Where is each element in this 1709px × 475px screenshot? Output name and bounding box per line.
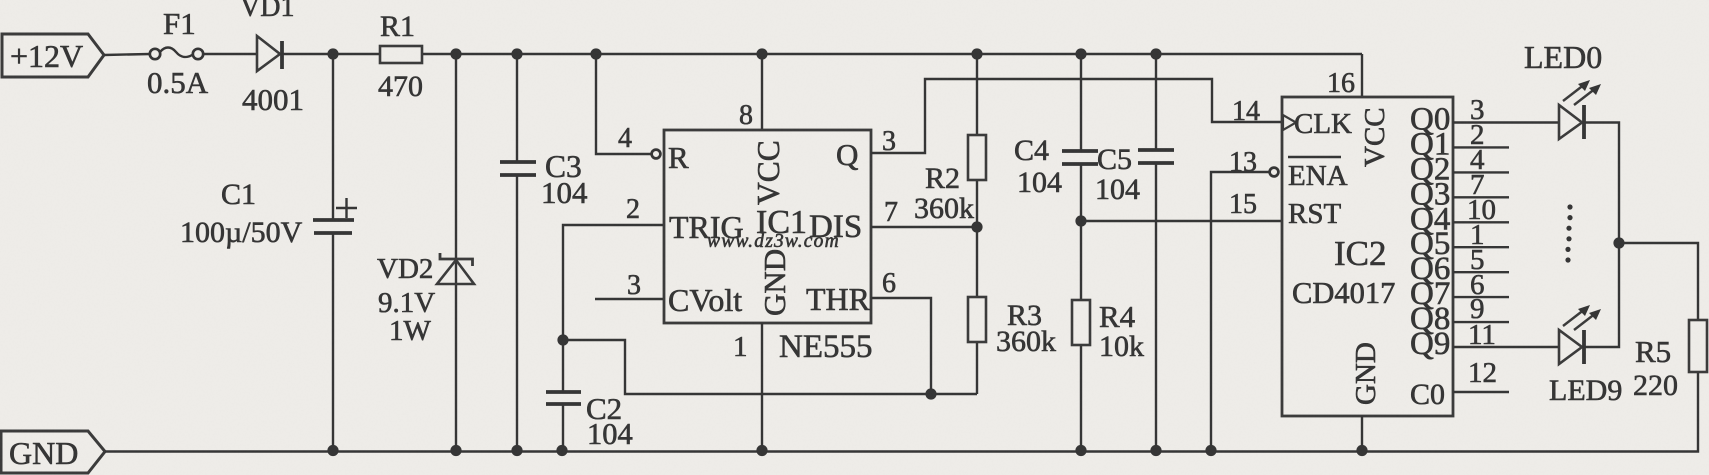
- wire Q pin 3 to CLK: [871, 79, 1283, 153]
- fuse F1 0.5A: [147, 6, 209, 100]
- wire C1 branch down: [332, 54, 334, 450]
- wire Q1 pin 2 stub: [1453, 146, 1509, 148]
- wire RST pin 15: [1081, 220, 1283, 222]
- wire VD2 branch: [455, 54, 457, 450]
- node junction dot VD1/C1: [327, 48, 338, 59]
- wire fuse to VD1: [203, 53, 257, 55]
- resistor R5 220: [1633, 320, 1707, 402]
- wire LED cathode bus: [1584, 123, 1619, 348]
- capacitor C5 104: [1095, 54, 1174, 450]
- node junction dot TRIG/C2: [557, 334, 568, 345]
- resistor R3 360k: [968, 297, 1056, 358]
- wire Q9 pin 11 to LED9: [1453, 346, 1559, 348]
- capacitor C4 104: [1014, 134, 1098, 199]
- node junction dot C3 top: [511, 48, 522, 59]
- node junction dot DIS/R2/R3: [971, 221, 982, 232]
- node junction dot R1/VD2: [450, 48, 461, 59]
- resistor R1 470: [378, 10, 423, 103]
- wire Q8 pin 9 stub: [1453, 321, 1509, 323]
- wire ENA pin 13 to ground: [1211, 172, 1269, 450]
- wire Q0 pin 3 to LED0: [1453, 121, 1559, 123]
- wire VCC pin 8: [761, 54, 763, 130]
- node +12V input tag: [2, 34, 104, 77]
- wire CVolt stub pin 3: [595, 298, 664, 300]
- zener diode VD2 9.1V 1W: [377, 253, 474, 347]
- wire Q5 pin 1 stub: [1453, 246, 1509, 248]
- node junction dot C5 top rail: [1150, 48, 1161, 59]
- capacitor C1 100u/50V: [180, 178, 357, 249]
- wire THR pin 6: [871, 298, 931, 394]
- wire top rail from tag to fuse: [104, 54, 150, 55]
- node junction dot R2 top rail: [971, 48, 982, 59]
- node ellipsis dots more LEDs: [1565, 204, 1572, 262]
- wire Q2 pin 4 stub: [1453, 171, 1509, 173]
- node junction dot RST/C4/R4: [1075, 215, 1086, 226]
- wire Q3 pin 7 stub: [1453, 196, 1509, 198]
- wire TRIG pin 2: [563, 225, 664, 450]
- wire ground bus: [105, 450, 1698, 452]
- wire GND pin of IC2: [1361, 416, 1363, 450]
- node GND input tag: [1, 431, 105, 473]
- capacitor C2 104: [546, 391, 633, 451]
- op-amp timer IC1 NE555 box: [664, 130, 871, 323]
- wire Q7 pin 6 stub: [1453, 296, 1509, 298]
- node junction dot C4 top rail: [1075, 48, 1086, 59]
- node junction dot THR link: [925, 388, 936, 399]
- wire DIS pin 7: [871, 226, 977, 228]
- node junction dot cathode bus: [1613, 237, 1624, 248]
- resistor R2 360k: [914, 135, 986, 225]
- wire VCC pin 16: [1361, 54, 1363, 97]
- wire to R5: [1619, 243, 1698, 450]
- capacitor C3 104: [500, 149, 588, 210]
- wire C3 branch: [516, 54, 518, 450]
- wire R2/R3 branch: [976, 54, 978, 394]
- node junction dot pin4 branch: [590, 48, 601, 59]
- wire Q4 pin 10 stub: [1453, 221, 1509, 223]
- wire GND pin 1: [761, 323, 763, 450]
- LED LED0: [1524, 39, 1602, 139]
- IC U2 CD4017 box: [1282, 97, 1453, 416]
- LED LED9: [1549, 305, 1622, 407]
- wire C0 pin 12 stub: [1453, 391, 1509, 393]
- resistor R4 10k: [1072, 299, 1144, 363]
- wire reset pin 4 branch with bubble: [596, 54, 651, 154]
- node junction dot pin8 branch: [756, 48, 767, 59]
- node ground dots: [327, 445, 338, 456]
- wire TRIG-THR link: [563, 340, 977, 394]
- wire C4/R4 branch: [1080, 54, 1082, 450]
- wire Q6 pin 5 stub: [1453, 271, 1509, 273]
- diode VD1 4001: [240, 0, 304, 117]
- wire VD1 to R1, top rail continues to IC2 VCC: [282, 53, 1362, 55]
